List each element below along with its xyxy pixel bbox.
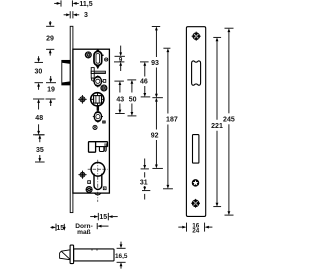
svg-text:92: 92	[151, 133, 159, 140]
dim 3	[64, 11, 80, 18]
dim 187	[163, 48, 173, 189]
svg-text:43: 43	[116, 96, 124, 103]
dim 93	[152, 27, 160, 98]
svg-text:187: 187	[166, 117, 178, 124]
dim 19	[46, 76, 57, 106]
svg-text:11,5: 11,5	[79, 1, 92, 8]
dim 43	[114, 81, 124, 113]
stop plate B	[103, 121, 106, 123]
dim 245	[225, 28, 234, 215]
svg-text:3: 3	[84, 12, 88, 19]
spindle follower hub	[91, 93, 104, 106]
svg-text:50: 50	[129, 96, 137, 103]
svg-text:9: 9	[119, 57, 123, 64]
dimensions	[33, 0, 235, 268]
stop plate A	[103, 80, 106, 83]
faceplate side view	[70, 26, 73, 212]
svg-text:221: 221	[211, 123, 223, 130]
latch bolt bottom view shaft	[74, 249, 114, 261]
deadbolt slide	[89, 142, 108, 153]
dim 221	[213, 37, 221, 206]
oval follower A	[93, 75, 103, 87]
svg-text:15: 15	[56, 225, 64, 232]
deadbolt cutout	[193, 135, 199, 164]
dim 50	[127, 80, 136, 116]
dim 9	[114, 46, 125, 71]
svg-text:24: 24	[192, 228, 200, 235]
svg-text:29: 29	[46, 36, 54, 43]
screw S4	[93, 125, 97, 129]
dim 92	[152, 98, 163, 169]
cross screw S5	[78, 171, 86, 179]
faceplate front view	[186, 27, 205, 217]
dim 15 Dornmass	[51, 224, 66, 231]
latch bolt bottom view flange	[70, 245, 74, 264]
screw S6 bottom	[86, 187, 92, 193]
screw S1 top-left	[85, 52, 91, 58]
screw S2	[101, 85, 107, 91]
svg-text:15: 15	[99, 214, 107, 221]
lock case	[73, 49, 110, 195]
svg-text:48: 48	[35, 115, 43, 122]
oval follower B	[93, 111, 103, 123]
T-lever	[91, 68, 105, 81]
dim 30	[35, 56, 44, 90]
latch roller follower	[94, 49, 102, 69]
cross screw S3	[78, 95, 87, 104]
dim 16 24	[178, 223, 212, 232]
square stop w/ dot	[88, 181, 91, 184]
dim 35	[35, 135, 45, 162]
svg-text:245: 245	[223, 116, 235, 123]
dim 15 horizontal	[90, 213, 118, 220]
dim arrow after Dornmass	[97, 223, 108, 229]
svg-text:19: 19	[47, 87, 55, 94]
latch cutout	[192, 61, 201, 85]
cylinder centerline	[97, 160, 99, 202]
dim 46	[140, 62, 150, 97]
dim 16,5	[117, 242, 126, 269]
screw F1 top	[192, 32, 201, 41]
svg-text:maß: maß	[77, 229, 91, 236]
square stop right	[103, 187, 106, 190]
latch bolt side view	[62, 60, 70, 85]
svg-text:35: 35	[36, 147, 44, 154]
svg-text:31: 31	[140, 179, 148, 186]
svg-text:30: 30	[35, 68, 43, 75]
svg-text:46: 46	[140, 79, 148, 86]
small pin circle	[102, 55, 108, 62]
dim 48	[33, 99, 44, 135]
screw F3	[191, 199, 200, 208]
svg-text:16,5: 16,5	[115, 253, 128, 260]
dim 11,5	[54, 0, 79, 6]
dim 29	[46, 21, 54, 56]
euro cylinder profile	[88, 163, 108, 190]
dim 31	[141, 159, 151, 200]
screw F2	[192, 180, 199, 187]
link bar	[97, 106, 99, 110]
svg-text:93: 93	[151, 60, 159, 67]
latch bolt bottom view head	[60, 250, 71, 260]
